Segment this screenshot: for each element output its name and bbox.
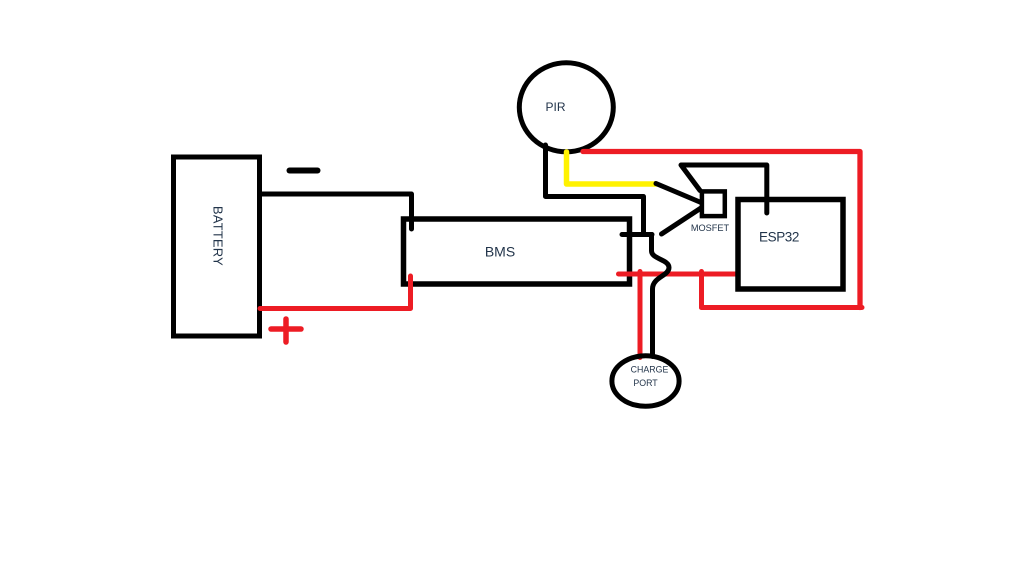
svg-text:MOSFET: MOSFET [691,223,730,233]
svg-text:CHARGE: CHARGE [631,365,669,375]
svg-text:PIR: PIR [545,100,565,114]
svg-text:BATTERY: BATTERY [211,206,226,266]
svg-text:BMS: BMS [485,244,515,260]
svg-text:PORT: PORT [633,378,658,388]
svg-text:ESP32: ESP32 [759,230,799,245]
